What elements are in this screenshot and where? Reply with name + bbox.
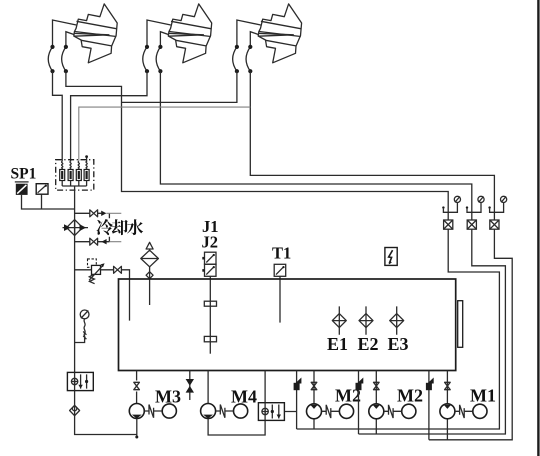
svg-text:E2: E2 — [358, 334, 379, 354]
svg-text:M4: M4 — [231, 387, 257, 407]
svg-text:E3: E3 — [388, 334, 409, 354]
svg-text:T1: T1 — [272, 244, 291, 263]
svg-text:E1: E1 — [327, 334, 348, 354]
svg-text:J2: J2 — [202, 233, 219, 252]
svg-text:M2: M2 — [397, 386, 423, 406]
svg-text:M1: M1 — [470, 386, 496, 406]
svg-text:SP1: SP1 — [11, 166, 37, 183]
